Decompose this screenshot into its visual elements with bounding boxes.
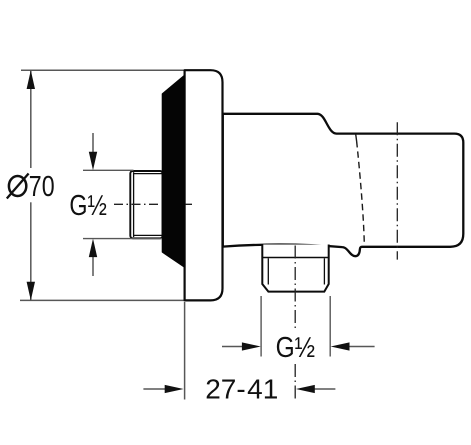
extension line G1/2 left bottom — [83, 238, 162, 240]
arrow G1/2 bottom left — [222, 342, 261, 350]
bottom outlet thread G1/2 — [262, 245, 328, 292]
svg-text:G½: G½ — [276, 332, 316, 364]
arrow 27-41 left — [143, 385, 183, 393]
solid tick at holder joint — [355, 134, 358, 141]
extension line wall face — [184, 302, 186, 400]
extension line G1/2 left top — [83, 169, 134, 171]
center line holder vertical — [396, 122, 398, 259]
svg-text:G½: G½ — [69, 190, 107, 222]
arrow G1/2 left top — [89, 133, 97, 170]
svg-text:70: 70 — [29, 171, 55, 203]
flange (black trapezoid) — [163, 76, 185, 268]
label G1/2 bottom — [273, 332, 318, 364]
escutcheon plate — [185, 70, 223, 300]
arrow D70 top — [27, 70, 35, 89]
dimension line D70 lower segment — [30, 202, 32, 300]
left thread G1/2 — [130, 171, 162, 238]
arrow 27-41 right — [296, 385, 336, 393]
arrow G1/2 left bottom — [89, 239, 97, 276]
svg-text:27-41: 27-41 — [205, 373, 278, 404]
extension line outlet left — [260, 296, 262, 357]
arrow G1/2 bottom right — [331, 342, 375, 350]
extension line top (diameter 70) — [21, 69, 184, 71]
extension line bottom (diameter 70) — [20, 299, 208, 301]
label D70 — [7, 171, 55, 203]
center line outlet vertical upper — [294, 246, 296, 332]
body of wall union — [223, 114, 463, 256]
arrow D70 bottom — [27, 282, 35, 301]
dimension line D70 upper segment — [30, 70, 32, 168]
center line horizontal — [114, 203, 192, 205]
center line outlet vertical lower — [294, 364, 296, 399]
extension line outlet right — [329, 296, 331, 357]
hidden dashed line — [357, 141, 365, 245]
